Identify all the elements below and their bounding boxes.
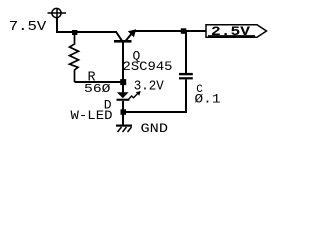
ground symbol bbox=[116, 112, 132, 132]
LED light arrow bbox=[129, 91, 141, 100]
resistor R bbox=[70, 33, 79, 82]
node junction J3 bbox=[181, 28, 187, 34]
svg-text:W-LED: W-LED bbox=[71, 109, 113, 123]
svg-text:GND: GND bbox=[141, 122, 169, 136]
net tag 2.5V bbox=[206, 25, 267, 39]
node junction J4 bbox=[121, 109, 127, 115]
ground rail wire bbox=[123, 111, 187, 113]
svg-text:2.5V: 2.5V bbox=[211, 25, 251, 39]
node junction J1 bbox=[72, 30, 77, 35]
capacitor C bbox=[179, 31, 193, 113]
wire resistor to base node bbox=[75, 81, 124, 83]
emitter output wire bbox=[134, 30, 206, 32]
transistor Q 2SC945 bbox=[114, 29, 136, 82]
svg-text:Ø.1: Ø.1 bbox=[195, 92, 221, 106]
wire from terminal to rail bbox=[56, 17, 117, 33]
LED D bbox=[117, 84, 130, 112]
svg-text:3.2V: 3.2V bbox=[134, 79, 165, 95]
svg-text:7.5V: 7.5V bbox=[9, 20, 47, 35]
svg-text:56Ø: 56Ø bbox=[84, 83, 111, 96]
svg-text:2SC945: 2SC945 bbox=[123, 60, 173, 74]
power terminal bbox=[48, 8, 67, 18]
node junction J2 bbox=[120, 79, 126, 85]
